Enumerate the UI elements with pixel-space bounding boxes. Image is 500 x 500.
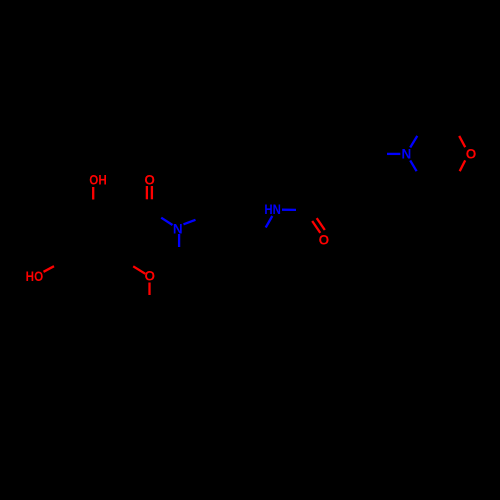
bond N-CH2 up-right (blue half) bbox=[184, 220, 196, 225]
bond N-CH3 down (blue half) bbox=[178, 234, 180, 247]
bond HN-C(=O) (blue half) bbox=[282, 209, 296, 211]
svg-text:HO: HO bbox=[26, 269, 44, 284]
C=O double bond right amide, outer line (red half) bbox=[312, 221, 320, 233]
svg-text:O: O bbox=[466, 147, 477, 162]
svg-text:N: N bbox=[173, 222, 183, 237]
svg-text:O: O bbox=[145, 269, 156, 284]
svg-text:N: N bbox=[402, 147, 412, 162]
bond chain CH2-N morpholine (blue half) bbox=[387, 153, 400, 155]
C=O double bond left line (red half) bbox=[146, 186, 148, 199]
C=O double bond right line (red half) bbox=[151, 186, 153, 199]
morpholine bond O-C5 down-left (red half) bbox=[460, 160, 466, 171]
svg-text:HN: HN bbox=[264, 202, 281, 217]
methoxy bond C6-O (red half) bbox=[133, 266, 145, 274]
bond C4-OH (red half) bbox=[44, 266, 55, 272]
svg-text:O: O bbox=[319, 232, 330, 247]
bond C(=O)-N (blue half) bbox=[161, 218, 172, 225]
morpholine bond O-C3 up-left (red half) bbox=[459, 136, 465, 147]
bond O-CH3 (red half) bbox=[148, 283, 150, 296]
C=O double bond right amide, inner line (red half) bbox=[317, 218, 325, 230]
morpholine bond N-C2 up-right (blue half) bbox=[410, 136, 417, 148]
bond HN-CH2 down-left (blue half) bbox=[266, 216, 273, 228]
svg-text:O: O bbox=[144, 172, 155, 187]
bond C2-OH (red half) bbox=[92, 187, 94, 200]
morpholine bond N-C6 down-right (blue half) bbox=[410, 160, 416, 171]
svg-text:OH: OH bbox=[89, 173, 107, 188]
